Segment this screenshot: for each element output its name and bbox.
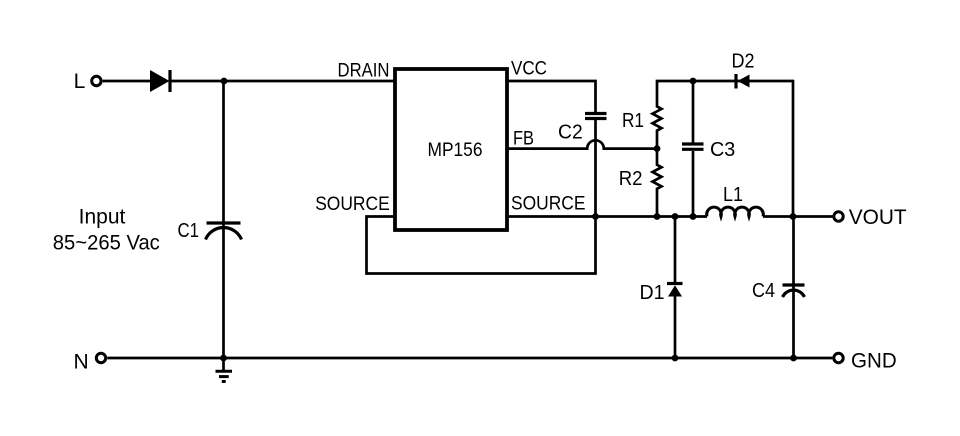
wire diode to DRAIN xyxy=(171,80,395,83)
svg-text:L: L xyxy=(74,70,86,93)
svg-text:VCC: VCC xyxy=(511,59,547,80)
svg-text:VOUT: VOUT xyxy=(849,206,907,229)
svg-text:SOURCE: SOURCE xyxy=(315,194,390,215)
svg-text:Input: Input xyxy=(79,206,126,229)
wire L to input diode xyxy=(103,80,151,83)
wire C2 bottom through hop to source net xyxy=(594,120,597,217)
svg-text:85~265 Vac: 85~265 Vac xyxy=(53,232,160,255)
terminal VOUT circle xyxy=(834,212,843,221)
ground symbol xyxy=(216,358,233,382)
node source net junctions xyxy=(592,213,796,220)
node input junction xyxy=(221,78,228,85)
node D1 bottom junction xyxy=(672,355,679,362)
input diode xyxy=(150,70,170,92)
capacitor C2 xyxy=(585,114,607,119)
node C3 top junction xyxy=(690,78,697,85)
terminal GND circle xyxy=(834,353,843,362)
inductor L1 xyxy=(707,207,764,216)
svg-text:R2: R2 xyxy=(619,168,643,190)
svg-text:L1: L1 xyxy=(723,184,743,206)
svg-text:D1: D1 xyxy=(640,282,665,304)
svg-text:FB: FB xyxy=(513,129,534,150)
wire top rail R1 to D2 corner xyxy=(656,80,793,83)
svg-text:GND: GND xyxy=(851,350,897,373)
diode D2 xyxy=(736,74,750,89)
IC U1 MP156 box xyxy=(395,69,507,230)
svg-text:C1: C1 xyxy=(178,220,200,242)
svg-text:SOURCE: SOURCE xyxy=(511,194,586,215)
svg-text:MP156: MP156 xyxy=(428,139,483,161)
capacitor C4 (polarized) xyxy=(783,217,805,359)
wire L1 to VOUT terminal xyxy=(763,215,832,218)
wire VCC pin to C2 xyxy=(507,81,596,112)
resistor R2 xyxy=(653,149,662,217)
svg-text:N: N xyxy=(74,350,89,373)
capacitor C3 xyxy=(682,81,704,217)
node C1 bottom junction xyxy=(220,355,227,362)
diode D1 xyxy=(667,217,683,359)
svg-text:DRAIN: DRAIN xyxy=(338,61,390,82)
terminal N circle xyxy=(96,353,105,362)
wire bottom rail N to GND xyxy=(107,357,832,360)
svg-text:R1: R1 xyxy=(622,110,644,132)
node C4 bottom junction xyxy=(790,355,797,362)
wire SOURCE pin right to L1 xyxy=(507,215,707,218)
wire source return loop xyxy=(367,217,596,274)
capacitor C1 (polarized) xyxy=(206,81,242,358)
wire FB with hop over C2 line xyxy=(507,140,657,148)
svg-text:C4: C4 xyxy=(752,280,775,302)
resistor R1 xyxy=(653,81,662,149)
wire riser D2 corner down to VOUT line xyxy=(792,80,795,217)
node FB divider junction xyxy=(654,145,661,152)
terminal L circle xyxy=(92,76,101,85)
svg-text:C3: C3 xyxy=(710,139,735,161)
svg-text:D2: D2 xyxy=(732,51,755,73)
svg-text:C2: C2 xyxy=(558,122,583,144)
